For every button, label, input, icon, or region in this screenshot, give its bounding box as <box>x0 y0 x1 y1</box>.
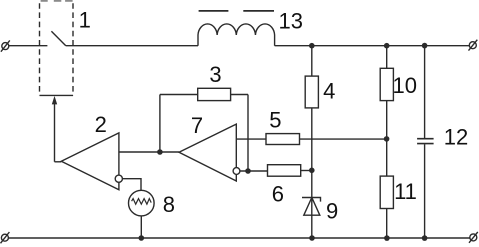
relay box 1 (dashed enclosure) <box>40 1 74 96</box>
wire branch B upper <box>386 46 388 69</box>
wire branch C upper <box>424 46 426 138</box>
wire branch A upper <box>311 46 313 76</box>
wire feedback top left <box>160 94 198 96</box>
svg-text:1: 1 <box>79 8 91 33</box>
terminal top-left input <box>1 40 10 51</box>
wire resistor 5 to branch B <box>300 138 387 140</box>
svg-text:10: 10 <box>392 73 416 98</box>
wire from switch to inductor <box>66 45 198 47</box>
svg-text:9: 9 <box>326 198 338 223</box>
wire branch A vertical through to diode <box>311 108 313 238</box>
bottom rail <box>8 237 469 239</box>
svg-text:2: 2 <box>95 112 107 137</box>
op-amp 7 <box>179 124 240 181</box>
control arrow into box 1 <box>52 96 62 162</box>
wire feedback top right <box>231 94 248 96</box>
resistor 10 <box>380 68 393 100</box>
node bottom diode <box>309 235 315 241</box>
wire branch C lower <box>424 144 426 238</box>
svg-text:4: 4 <box>323 78 335 103</box>
lamp 8 <box>129 190 155 216</box>
resistor 6 <box>268 165 301 177</box>
capacitor 12 <box>417 139 434 144</box>
wire branch B middle <box>386 101 388 177</box>
node top branch A <box>309 43 315 49</box>
svg-text:11: 11 <box>394 179 417 204</box>
svg-text:8: 8 <box>163 192 175 217</box>
wire op-amp 2 output to op-amp 7 input <box>119 151 179 153</box>
node bottom lamp <box>139 235 145 241</box>
svg-text:7: 7 <box>191 113 203 138</box>
op-amp 2 <box>61 133 122 190</box>
node resistor 6 / branch A <box>309 168 315 174</box>
zener diode 9 <box>302 198 321 216</box>
terminal bottom-left <box>1 232 10 243</box>
svg-text:3: 3 <box>209 62 221 87</box>
resistor 4 <box>305 76 318 108</box>
svg-text:5: 5 <box>269 108 281 133</box>
resistor 5 <box>266 134 300 145</box>
wire feedback down <box>247 95 249 172</box>
resistor 11 <box>380 176 393 208</box>
wire lamp to bottom rail <box>140 216 142 238</box>
resistor 3 <box>198 88 231 100</box>
node feedback tap <box>157 149 163 155</box>
wire branch B lower <box>386 209 388 239</box>
svg-text:6: 6 <box>272 181 284 206</box>
node bottom capacitor <box>422 235 428 241</box>
terminal top-right output <box>469 40 478 51</box>
inductor 13 core lines <box>199 10 274 12</box>
switch S inside box 1 <box>51 31 65 46</box>
node resistor 5 / branch B <box>384 136 390 142</box>
wire top from inductor to output terminal <box>275 45 470 47</box>
svg-text:13: 13 <box>279 9 303 34</box>
wire op-amp 7 bubble output to resistor 6 <box>240 170 268 172</box>
wire feedback up <box>159 95 161 153</box>
node feedback / resistor 6 <box>245 168 251 174</box>
wire op-amp 7 upper output to resistor 5 <box>236 138 266 140</box>
wire op-amp 2 bubble to lamp corner <box>122 179 141 191</box>
node bottom resistor 11 <box>384 235 390 241</box>
wire resistor 6 to branch A <box>301 170 312 172</box>
terminal bottom-right <box>469 232 478 243</box>
inductor 13 <box>198 24 275 46</box>
wire top from input terminal to switch <box>9 45 48 47</box>
svg-text:12: 12 <box>444 125 468 150</box>
node top branch C <box>422 43 428 49</box>
node top branch B <box>384 43 390 49</box>
